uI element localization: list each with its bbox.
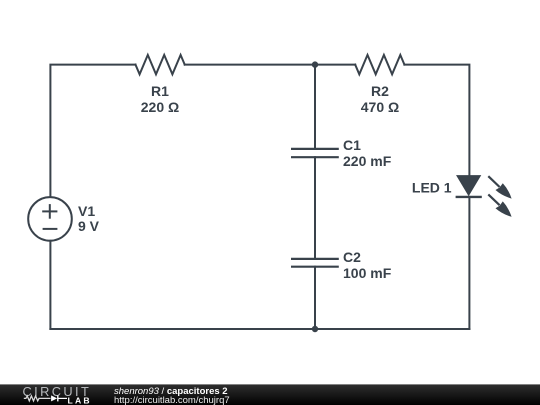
logo squiggle resistor xyxy=(24,396,51,401)
capacitor C1 xyxy=(291,149,339,157)
voltage source V1 xyxy=(28,197,72,241)
LED light arrow 2 xyxy=(488,194,511,216)
svg-text:LED 1: LED 1 xyxy=(412,180,452,196)
wire middle branch upper xyxy=(314,65,316,149)
svg-text:470 Ω: 470 Ω xyxy=(361,99,399,115)
svg-text:http://circuitlab.com/chujrq7: http://circuitlab.com/chujrq7 xyxy=(114,395,230,405)
wire top rail middle segment xyxy=(185,64,356,66)
resistor R2 xyxy=(355,55,404,74)
svg-text:100 mF: 100 mF xyxy=(343,265,392,281)
wire top rail left segment xyxy=(50,65,135,197)
wire middle branch between C1 and C2 xyxy=(314,157,316,259)
svg-text:R2: R2 xyxy=(371,83,389,99)
wire bottom rail xyxy=(50,328,469,330)
LED LED1 cathode bar xyxy=(456,196,482,198)
wire right rail lower xyxy=(468,197,470,329)
LED light arrow 1 xyxy=(488,176,511,198)
LED LED1 triangle xyxy=(457,176,481,196)
svg-text:V1: V1 xyxy=(78,203,95,219)
node junction bottom xyxy=(312,326,318,332)
wire top rail right segment xyxy=(404,65,469,176)
svg-text:220 Ω: 220 Ω xyxy=(141,99,179,115)
svg-text:C1: C1 xyxy=(343,137,361,153)
svg-text:9 V: 9 V xyxy=(78,218,100,234)
node junction top xyxy=(312,61,318,67)
svg-text:LAB: LAB xyxy=(68,395,92,405)
svg-text:220 mF: 220 mF xyxy=(343,153,392,169)
svg-text:R1: R1 xyxy=(151,83,169,99)
svg-text:C2: C2 xyxy=(343,249,361,265)
wire left rail lower xyxy=(49,241,51,329)
capacitor C2 xyxy=(291,259,339,267)
wire middle branch lower xyxy=(314,267,316,329)
logo diode xyxy=(51,395,67,401)
resistor R1 xyxy=(136,55,185,74)
footer bar xyxy=(0,384,540,405)
